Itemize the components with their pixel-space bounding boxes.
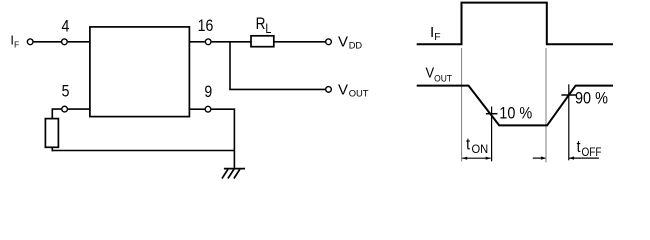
- svg-text:9: 9: [204, 83, 212, 101]
- pin 9 circle: [205, 106, 211, 112]
- resistor RL: [251, 36, 274, 47]
- wire resistor to bottom wire: [51, 147, 53, 151]
- wire RL to VDD: [274, 41, 326, 43]
- wire junction down to VOUT line: [229, 42, 231, 90]
- IF waveform: [417, 3, 613, 45]
- tON dimension arrow: [462, 157, 491, 160]
- svg-text:10 %: 10 %: [499, 104, 532, 122]
- svg-text:IF: IF: [10, 33, 19, 50]
- IC box U1: [90, 27, 189, 117]
- svg-text:VDD: VDD: [338, 34, 362, 51]
- svg-text:5: 5: [62, 82, 70, 100]
- wire box to pin 16: [189, 41, 204, 43]
- resistor R bottom-left: [45, 119, 58, 148]
- svg-text:4: 4: [61, 17, 69, 35]
- wire pin 5 to box: [68, 108, 90, 110]
- pin 5 circle: [62, 106, 68, 112]
- wire pin 16 to resistor RL: [212, 41, 251, 43]
- svg-text:VOUT: VOUT: [426, 65, 453, 84]
- wire box to pin 9: [189, 108, 204, 110]
- wire pin 4 to box: [68, 41, 90, 43]
- svg-text:tOFF: tOFF: [577, 138, 602, 159]
- 90% marker vertical line: [568, 84, 570, 160]
- svg-text:90 %: 90 %: [575, 89, 608, 107]
- input terminal circle: [27, 39, 33, 45]
- guide line at IF rise: [461, 48, 463, 162]
- 90% cross stroke: [561, 94, 576, 96]
- svg-text:tON: tON: [466, 136, 488, 156]
- pin 4 circle: [62, 39, 68, 45]
- 10% cross stroke: [486, 113, 498, 115]
- 10% marker vertical line: [491, 107, 493, 162]
- tOFF arrow pointing left at 90% line: [569, 156, 599, 159]
- svg-text:VOUT: VOUT: [338, 81, 369, 98]
- svg-text:16: 16: [198, 17, 214, 35]
- guide line at IF fall: [545, 48, 547, 162]
- wire pin 5 left and down to resistor: [52, 109, 61, 119]
- bottom wire: [52, 150, 235, 152]
- VDD terminal circle: [326, 39, 332, 45]
- middle arrow pointing right at fall guide: [533, 156, 546, 159]
- svg-text:RL: RL: [256, 15, 272, 37]
- ground bar: [224, 168, 245, 170]
- svg-text:IF: IF: [430, 24, 441, 43]
- wire pin 9 right and down to ground: [211, 109, 234, 168]
- VOUT terminal circle: [326, 87, 332, 93]
- ground slash 2: [228, 169, 234, 178]
- pin 16 circle: [205, 39, 211, 45]
- VOUT waveform: [417, 86, 613, 126]
- wire to VOUT terminal: [229, 88, 325, 90]
- ground slash 3: [234, 169, 240, 178]
- ground slash 1: [222, 169, 228, 178]
- wire input to pin 4: [34, 41, 61, 43]
